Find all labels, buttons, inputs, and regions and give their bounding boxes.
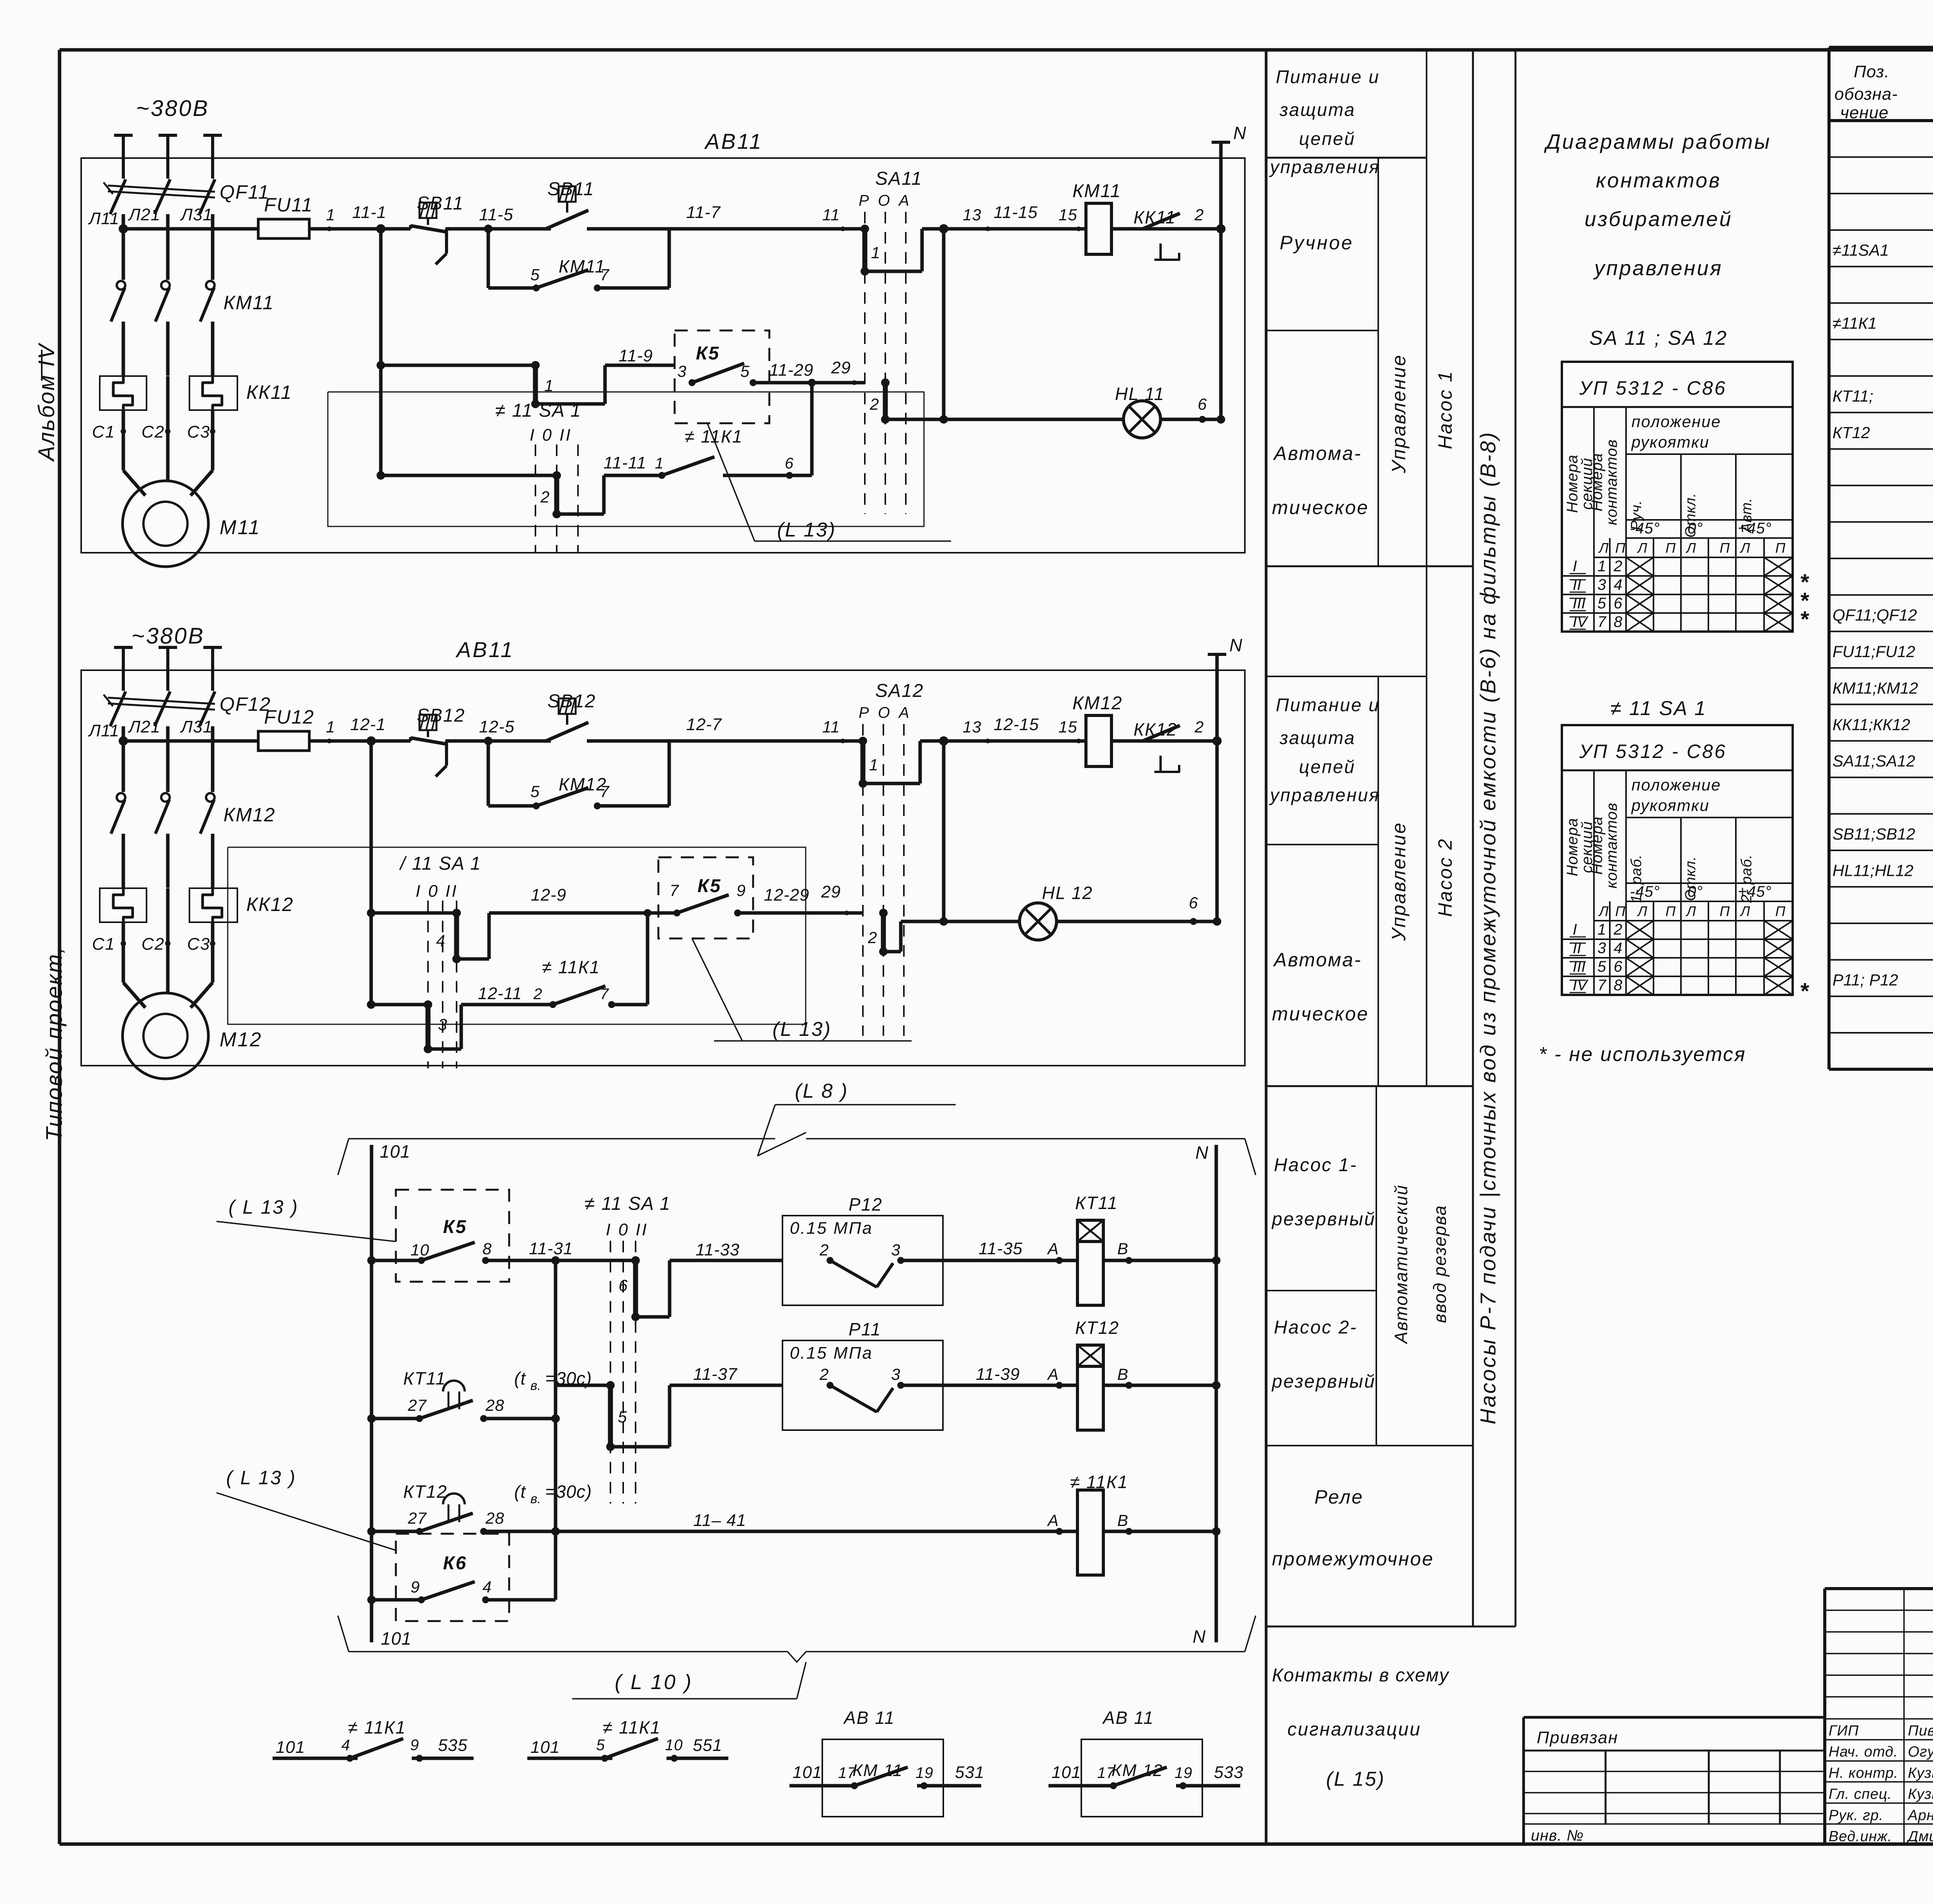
svg-text:Нач. отд.: Нач. отд.	[1829, 1744, 1898, 1760]
svg-text:1: 1	[326, 206, 335, 224]
svg-text:резервный: резервный	[1271, 1209, 1376, 1230]
svg-text:12-1: 12-1	[350, 715, 386, 734]
svg-text:4: 4	[341, 1737, 350, 1754]
svg-text:Л: Л	[1740, 903, 1751, 919]
selector switch SA12 dashed columns Р О А	[859, 681, 924, 1036]
selector table ≠11SA1 rows and X marks	[1570, 921, 1793, 995]
svg-text:(L 13): (L 13)	[772, 1018, 832, 1041]
svg-text:С3: С3	[187, 422, 210, 441]
strip label: Насос 2 - резервный	[1271, 1317, 1376, 1392]
svg-text:1: 1	[869, 756, 878, 774]
svg-text:Ручное: Ручное	[1280, 761, 1283, 762]
parts table row lines	[1829, 157, 1933, 1033]
block brackets top and bottom	[338, 1139, 1256, 1662]
svg-text:П: П	[1775, 540, 1786, 556]
svg-text:*: *	[1800, 607, 1809, 632]
svg-text:11-9: 11-9	[619, 346, 653, 365]
strip label: Ручное (насос 2)	[0, 0, 0, 0]
selector table SA11;SA12 headers	[1564, 412, 1786, 556]
svg-text:6: 6	[785, 455, 794, 472]
svg-text:* - не используется: * - не используется	[1539, 1043, 1746, 1066]
svg-text:С2: С2	[141, 422, 165, 441]
svg-text:Типовой проект,: Типовой проект,	[42, 946, 67, 1141]
svg-text:А: А	[1047, 1365, 1059, 1383]
svg-text:КМ11: КМ11	[223, 292, 274, 313]
strip label: Ручное (насос 1)	[1280, 232, 1353, 254]
strip label: Автоматическое (насос 2)	[1272, 949, 1369, 1025]
svg-text:11: 11	[822, 206, 840, 224]
svg-text:7: 7	[670, 881, 679, 899]
svg-text:Л31: Л31	[180, 717, 213, 736]
svg-text:АВ11: АВ11	[704, 129, 763, 153]
svg-text:≠ 11К1: ≠ 11К1	[685, 426, 743, 446]
svg-text:FU11;FU12: FU11;FU12	[1832, 642, 1915, 661]
svg-text:(L 8 ): (L 8 )	[795, 1080, 848, 1102]
svg-text:11-39: 11-39	[976, 1365, 1020, 1384]
svg-text:Привязан: Привязан	[1537, 1728, 1618, 1747]
svg-text:К6: К6	[443, 1553, 467, 1574]
svg-text:2: 2	[819, 1241, 829, 1259]
svg-text:-45°: -45°	[1630, 883, 1660, 900]
node 11-5 and seal-in branch with КМ11 aux contact	[479, 205, 669, 291]
svg-text:13: 13	[963, 718, 982, 736]
label SB11 (stop)	[417, 193, 464, 214]
svg-text:М11: М11	[220, 516, 261, 539]
svg-text:Питание и: Питание и	[1276, 695, 1380, 715]
svg-text:(L 15): (L 15)	[1326, 1768, 1385, 1790]
electric motor М12	[123, 943, 262, 1079]
≠11SA1 contact 1 and wire 11-9	[381, 346, 675, 408]
svg-text:3: 3	[438, 1015, 447, 1034]
pointer (L8) to reserve logic block	[758, 1080, 956, 1156]
svg-text:Л: Л	[1637, 903, 1648, 919]
svg-text:11-31: 11-31	[529, 1239, 573, 1258]
svg-text:М12: М12	[220, 1029, 262, 1051]
wire 11-41 to intermediate relay ≠11К1 coil	[556, 1472, 1128, 1535]
strip label: Управление (насос 1, rotated)	[1388, 354, 1410, 473]
contactor coil КМ12	[1072, 693, 1123, 766]
label КК11 and node 2, N connection (circuit 1)	[1134, 206, 1226, 233]
SA12 contact 2 (auto position)	[868, 909, 944, 956]
svg-text:SA12: SA12	[875, 681, 924, 701]
label ~380V (circuit 1)	[136, 96, 209, 121]
svg-text:резервный: резервный	[1271, 1371, 1376, 1392]
svg-text:6: 6	[1614, 595, 1623, 612]
strip label: Контакты в схему сигнализации (L15)	[1272, 1665, 1450, 1790]
svg-text:Л: Л	[1686, 540, 1696, 556]
auxiliary contact К5 (dashed box, reserve row 1)	[367, 1190, 573, 1282]
svg-text:Насосы Р-7 подачи |сточных: Насосы Р-7 подачи |сточных вод из промеж…	[1476, 431, 1500, 1425]
svg-text:управления: управления	[1269, 785, 1380, 805]
svg-text:В: В	[1117, 1240, 1128, 1258]
svg-text:101: 101	[276, 1738, 305, 1757]
svg-text:(L 13): (L 13)	[777, 519, 836, 541]
svg-text:КТ12: КТ12	[403, 1482, 447, 1502]
control bus wire (circuit 1)	[119, 224, 1221, 233]
attachment box Привязан	[1524, 1717, 1825, 1845]
leader (L13) to К5 (circuit 2)	[692, 938, 912, 1041]
svg-text:П: П	[1775, 903, 1786, 919]
phase wires М11	[123, 214, 213, 280]
svg-text:2: 2	[1194, 206, 1204, 224]
svg-text:1: 1	[326, 718, 335, 736]
svg-text:101: 101	[1052, 1763, 1081, 1782]
svg-text:Р О А: Р О А	[859, 704, 912, 721]
svg-text:8: 8	[482, 1240, 492, 1258]
parts row: SA11;SA12	[1832, 749, 1933, 771]
svg-text:2: 2	[868, 928, 877, 947]
svg-text:ввод резерва: ввод резерва	[1430, 1205, 1450, 1323]
svg-text:III: III	[1573, 958, 1585, 975]
svg-text:15: 15	[1059, 718, 1077, 736]
enclosure box AB11 (circuit 1)	[81, 158, 1245, 553]
svg-text:цепей: цепей	[1299, 128, 1355, 149]
svg-text:АВ 11: АВ 11	[843, 1708, 895, 1728]
thermal relay contact КК12 NC contact	[1143, 725, 1180, 772]
control bus wire (circuit 2)	[119, 736, 1217, 746]
asterisk beside ≠11SA1 table	[1800, 979, 1809, 1004]
svg-text:( L 10 ): ( L 10 )	[615, 1671, 693, 1694]
phase wires М12	[123, 726, 213, 792]
svg-text:С1: С1	[92, 935, 115, 954]
svg-text:6: 6	[619, 1276, 628, 1294]
svg-text:С1: С1	[92, 422, 115, 441]
svg-text:обозна-: обозна-	[1834, 85, 1898, 104]
svg-text:FU11: FU11	[264, 194, 313, 216]
time relay contact КТ12 (delayed, reserve row 3)	[367, 1482, 592, 1536]
svg-text:КК11: КК11	[1134, 207, 1176, 227]
label КК12 and node 2 (circuit 2)	[1134, 718, 1222, 746]
neutral line N (circuit 2)	[1208, 635, 1243, 921]
svg-text:избирателей: избирателей	[1585, 208, 1733, 231]
svg-text:защита: защита	[1279, 727, 1355, 748]
margin text Альбом IV (rotated)	[34, 342, 59, 462]
svg-text:10: 10	[665, 1737, 683, 1754]
svg-text:тическое: тическое	[1272, 1003, 1369, 1025]
svg-text:≠ 11 SA 1: ≠ 11 SA 1	[585, 1194, 671, 1214]
svg-text:5: 5	[596, 1737, 605, 1754]
svg-text:управления: управления	[1593, 257, 1723, 280]
svg-text:5: 5	[530, 782, 540, 800]
wire node 11-7 / 11 (circuit 1)	[686, 203, 845, 231]
leader (L13) to К5 (circuit 1)	[707, 424, 951, 541]
svg-text:К5: К5	[697, 876, 721, 896]
svg-text:7: 7	[1597, 977, 1607, 994]
svg-text:Арнаутова: Арнаутова	[1907, 1807, 1933, 1824]
svg-text:Поз.: Поз.	[1854, 62, 1890, 81]
signalling contact КМ 12 in box АВ11 (533)	[1048, 1708, 1243, 1817]
svg-text:Автома-: Автома-	[1273, 949, 1362, 971]
svg-text:28: 28	[485, 1509, 505, 1527]
thermal relay contact КК11 NC contact	[1143, 213, 1180, 260]
svg-text:0°: 0°	[1688, 520, 1703, 537]
svg-text:Насос 2: Насос 2	[1434, 838, 1456, 917]
selector table SA11;SA12 rows and X marks	[1570, 557, 1793, 632]
svg-text:Р11: Р11	[849, 1319, 881, 1339]
svg-text:QF11;QF12: QF11;QF12	[1832, 606, 1917, 624]
node 1 and node 11-1 (circuit 1)	[326, 203, 387, 233]
selector ≠11SA1 dashed columns I 0 II (circuit 2)	[399, 853, 481, 1068]
svg-text:3: 3	[891, 1241, 900, 1259]
wire 11-35 to time relay КТ11	[978, 1239, 1077, 1264]
automatic-mode drop wire from node 11-1	[377, 229, 385, 480]
≠11SA1 contact 2 and relay contact ≠11К1 row (circuit 1)	[381, 379, 816, 518]
svg-text:УП 5312 - С86: УП 5312 - С86	[1579, 741, 1727, 762]
svg-text:3: 3	[891, 1365, 900, 1383]
strip label: Насос 2 (rotated)	[1434, 838, 1456, 917]
phase labels Л11 Л21 Л31 (circuit 1)	[88, 205, 213, 228]
svg-text:Л: Л	[1637, 540, 1648, 556]
svg-text:КК11;КК12: КК11;КК12	[1832, 715, 1910, 734]
parts row: ≠11SA1	[1832, 238, 1933, 260]
svg-text:С3: С3	[187, 935, 210, 954]
circuit breaker QF11	[104, 179, 269, 214]
svg-text:КТ11;: КТ11;	[1832, 387, 1873, 405]
svg-text:IV: IV	[1573, 977, 1589, 994]
svg-text:551: 551	[693, 1736, 722, 1755]
contactor main contacts КМ12	[111, 793, 276, 888]
svg-text:сигнализации: сигнализации	[1287, 1719, 1421, 1740]
asterisks beside SA11;SA12 table	[1800, 570, 1809, 632]
svg-text:0°: 0°	[1688, 883, 1703, 900]
svg-text:Ручное: Ручное	[1280, 232, 1353, 254]
label SB12 (start)	[547, 691, 596, 712]
svg-text:1: 1	[1597, 921, 1606, 938]
svg-text:тическое: тическое	[1272, 497, 1369, 518]
svg-text:+45°: +45°	[1738, 883, 1772, 900]
svg-text:Л: Л	[1598, 540, 1609, 556]
svg-text:КМ11;КМ12: КМ11;КМ12	[1832, 679, 1918, 697]
parts row: КТ11;	[1832, 384, 1933, 406]
svg-text:27: 27	[407, 1509, 427, 1527]
svg-text:6: 6	[1614, 958, 1623, 975]
time relay coil КТ12	[1075, 1318, 1220, 1430]
svg-text:защита: защита	[1279, 99, 1355, 120]
svg-text:П: П	[1665, 903, 1676, 919]
signalling contact КМ 11 in box АВ11 (531)	[789, 1708, 984, 1817]
svg-text:( L 13 ): ( L 13 )	[226, 1467, 297, 1488]
svg-text:Л: Л	[1686, 903, 1696, 919]
svg-text:2: 2	[869, 395, 879, 413]
label ≠11SA1 above second selector table	[1610, 697, 1706, 720]
rotated sheet subject title: Насосы Р-7 подачи сточных вод ...	[1476, 431, 1500, 1425]
strip label: Автоматический ввод резерва (rotated)	[1391, 1184, 1450, 1344]
svg-text:Р11; Р12: Р11; Р12	[1832, 971, 1898, 989]
parts row: КТ12	[1832, 421, 1933, 443]
svg-text:положение: положение	[1631, 412, 1721, 431]
svg-text:1: 1	[871, 244, 880, 262]
supply ticks ~380V for motor circuit М11	[114, 135, 222, 179]
svg-text:7: 7	[1597, 613, 1607, 630]
svg-text:Диаграммы работы: Диаграммы работы	[1544, 130, 1771, 153]
pressure switch Р11 (manometer contact)	[782, 1319, 976, 1430]
svg-text:Реле: Реле	[1314, 1486, 1364, 1508]
svg-text:5: 5	[1597, 958, 1606, 975]
svg-text:Рук. гр.: Рук. гр.	[1829, 1807, 1884, 1824]
svg-text:12-5: 12-5	[479, 717, 515, 736]
svg-text:29: 29	[821, 882, 841, 901]
svg-text:чение: чение	[1840, 103, 1889, 122]
svg-text:HL11;HL12: HL11;HL12	[1832, 861, 1913, 879]
label AB11 (circuit 1)	[704, 129, 763, 153]
wire 11-39 to time relay КТ12	[976, 1365, 1077, 1389]
svg-text:КТ12: КТ12	[1832, 424, 1870, 442]
svg-text:Огурцов: Огурцов	[1908, 1744, 1933, 1760]
≠11SA1 contact 3 and relay contact ≠11К1 row (circuit 2)	[371, 913, 648, 1053]
title block outline	[1825, 1589, 1933, 1845]
svg-text:1: 1	[655, 455, 664, 472]
svg-text:К5: К5	[443, 1217, 467, 1237]
svg-text:II: II	[1573, 940, 1581, 957]
junction column between reserve rows	[554, 1260, 557, 1531]
reserve logic block bus 101	[372, 1141, 412, 1649]
svg-text:12-11: 12-11	[478, 984, 522, 1003]
svg-text:11-1: 11-1	[352, 203, 387, 222]
start push-button SB11 start	[546, 186, 588, 229]
svg-text:КТ11: КТ11	[403, 1368, 446, 1388]
svg-text:11-15: 11-15	[994, 203, 1038, 222]
svg-text:Р12: Р12	[849, 1194, 883, 1214]
svg-text:Л11: Л11	[88, 721, 119, 740]
svg-text:533: 533	[1214, 1763, 1243, 1782]
≠11SA1 contact 4 and wire 12-9 (circuit 2)	[371, 886, 675, 963]
label SB12 (stop)	[417, 705, 465, 726]
contactor coil КМ11	[1072, 181, 1121, 254]
svg-text:2: 2	[819, 1365, 829, 1383]
selector diagram table SA11;SA12 grid	[1562, 362, 1793, 632]
parts list table outer grid	[1829, 48, 1933, 1069]
svg-text:≠11К1: ≠11К1	[1832, 314, 1877, 332]
svg-text:2: 2	[1194, 718, 1204, 736]
svg-text:101: 101	[530, 1738, 560, 1757]
strip label: Питание и защита цепей управления (насос 1)	[1276, 66, 1380, 149]
≠11SA1 contact 6 (reserve row 1)	[556, 1240, 782, 1321]
strip label: Насос 1 (rotated)	[1434, 370, 1456, 449]
leader (L13) to К5 (reserve row 1)	[216, 1196, 396, 1242]
svg-text:4: 4	[482, 1578, 492, 1596]
fuse FU11	[258, 194, 313, 238]
label AB11 (circuit 2)	[455, 637, 514, 662]
node 13 / 12-15 / 15 (circuit 2)	[939, 715, 1081, 746]
svg-text:КТ11: КТ11	[1075, 1193, 1118, 1213]
svg-text:АВ11: АВ11	[455, 637, 514, 662]
strip label: Насос 1 - резервный	[1271, 1155, 1376, 1230]
svg-text:HL 12: HL 12	[1042, 883, 1093, 903]
svg-text:15: 15	[1059, 206, 1077, 224]
svg-text:Л: Л	[1740, 540, 1751, 556]
parts row: КМ11;КМ12	[1832, 676, 1933, 698]
svg-text:контактов: контактов	[1603, 439, 1620, 525]
svg-text:III: III	[1573, 595, 1585, 612]
start push-button SB12 start	[546, 698, 588, 741]
svg-text:11-11: 11-11	[603, 453, 646, 472]
svg-text:Альбом IV: Альбом IV	[34, 342, 59, 462]
electric motor М11	[123, 431, 261, 567]
svg-text:101: 101	[793, 1763, 822, 1782]
svg-text:SA 11 ; SA 12: SA 11 ; SA 12	[1589, 327, 1728, 349]
svg-text:11-5: 11-5	[479, 205, 513, 224]
auxiliary contact К5 (dashed box, circuit 2)	[658, 857, 863, 938]
enclosure box AB11 (circuit 2)	[81, 670, 1245, 1066]
svg-text:ГИП: ГИП	[1829, 1723, 1859, 1739]
svg-text:~380В: ~380В	[131, 623, 205, 649]
svg-text:Л21: Л21	[128, 717, 160, 736]
svg-text:SA11;SA12: SA11;SA12	[1832, 752, 1915, 770]
svg-text:Л21: Л21	[128, 205, 160, 224]
svg-text:11-7: 11-7	[686, 203, 721, 222]
svg-text:101: 101	[380, 1141, 411, 1161]
stop push-button SB11 stop	[411, 203, 447, 264]
svg-text:13: 13	[963, 206, 982, 224]
automatic-mode drop wire from node 12-1	[367, 741, 375, 1009]
svg-text:I 0 II: I 0 II	[606, 1220, 648, 1239]
svg-text:5: 5	[618, 1408, 627, 1426]
svg-text:Дмитриева: Дмитриева	[1906, 1829, 1933, 1845]
strip label Ручное2 real	[0, 0, 0, 0]
svg-text:II: II	[1573, 576, 1581, 593]
svg-text:SB11: SB11	[547, 179, 595, 199]
svg-text:12-15: 12-15	[994, 715, 1039, 734]
margin text Типовой проект (rotated)	[42, 946, 67, 1141]
svg-text:4: 4	[436, 932, 445, 950]
svg-text:-45°: -45°	[1630, 520, 1660, 537]
parts row: КК11;КК12	[1832, 713, 1933, 734]
svg-text:рукоятки: рукоятки	[1631, 796, 1710, 814]
svg-text:19: 19	[915, 1764, 934, 1781]
strip label: Питание и защита цепей управления (насос 2)	[1269, 695, 1380, 805]
svg-text:Насос 2-: Насос 2-	[1274, 1317, 1357, 1338]
junction column to signal lamp (circuit 1)	[939, 229, 1123, 424]
svg-text:N: N	[1195, 1143, 1209, 1163]
strip label: Реле промежуточное	[1272, 1486, 1434, 1570]
leader (L13) to К6 (reserve row 4)	[216, 1467, 396, 1550]
phase labels Л11 Л21 Л31 (circuit 2)	[88, 717, 213, 740]
svg-text:17: 17	[838, 1764, 856, 1781]
svg-text:27: 27	[407, 1396, 427, 1414]
svg-text:(t: (t	[514, 1368, 526, 1388]
svg-text:4: 4	[1614, 576, 1623, 593]
parts row: HL11;HL12	[1832, 858, 1933, 880]
contactor main contacts КМ11	[111, 281, 274, 376]
svg-text:0.15 МПа: 0.15 МПа	[790, 1344, 873, 1362]
staff rows (ГИП..Вед.инж.)	[1829, 1722, 1933, 1845]
svg-text:≠ 11К1: ≠ 11К1	[603, 1717, 661, 1737]
fuse FU12	[258, 706, 314, 751]
svg-text:А: А	[1047, 1240, 1059, 1258]
svg-text:Автоматический: Автоматический	[1391, 1184, 1411, 1344]
svg-text:0.15 МПа: 0.15 МПа	[790, 1219, 873, 1238]
svg-text:Управление: Управление	[1388, 822, 1410, 941]
svg-text:С2: С2	[141, 935, 165, 954]
svg-text:в.: в.	[530, 1378, 541, 1393]
svg-text:IV: IV	[1573, 613, 1589, 630]
selector ≠11SA1 dashed columns I 0 II (circuit 1)	[495, 400, 581, 553]
selector diagram table ≠11SA1 grid	[1562, 725, 1793, 995]
svg-text:КК11: КК11	[246, 381, 292, 403]
parts row: Р11; Р12	[1832, 968, 1933, 990]
svg-text:11-35: 11-35	[978, 1239, 1023, 1258]
svg-text:1: 1	[1597, 558, 1606, 575]
junction column to signal lamp (circuit 2)	[939, 741, 1019, 926]
svg-text:8: 8	[1614, 977, 1623, 994]
svg-text:11: 11	[822, 718, 840, 736]
parts row: SB11;SB12	[1832, 822, 1933, 844]
svg-text:КК12: КК12	[1134, 719, 1177, 739]
svg-text:SB12: SB12	[547, 691, 596, 712]
svg-text:В: В	[1117, 1365, 1128, 1383]
svg-text:в.: в.	[530, 1492, 541, 1506]
thermal relay heaters КК12	[100, 888, 294, 922]
